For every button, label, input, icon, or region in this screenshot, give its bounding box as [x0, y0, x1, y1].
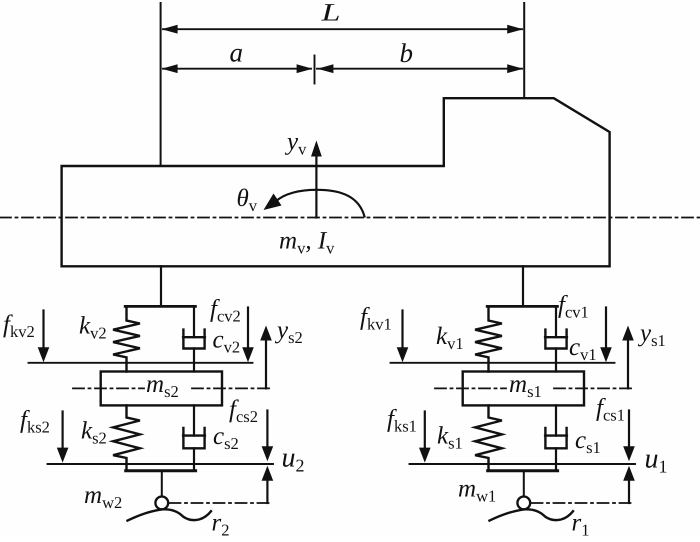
vehicle body m_v with cab outline [62, 98, 610, 266]
arrow f_ks2 [57, 412, 69, 463]
spring k_s1 [475, 405, 502, 470]
label c_s2 [213, 423, 239, 453]
wheel centerline dash-dot 1 [532, 502, 633, 504]
dimension a line [162, 64, 313, 73]
label f_cv1 [558, 292, 589, 322]
wire to wheel m_w1 [523, 471, 525, 497]
top bar of suspension 1 [487, 305, 557, 308]
label f_ks1 [387, 406, 417, 436]
spring k_v2 [113, 308, 140, 372]
wire body to suspension 2 [160, 266, 162, 306]
top bar of suspension 2 [125, 305, 195, 308]
arrow u_2 [262, 466, 274, 503]
dimension L label [320, 0, 340, 27]
arrow y_s1 [622, 326, 634, 389]
label r_2 [212, 510, 230, 540]
label m_w2 [84, 482, 122, 512]
road profile r_2 [128, 509, 212, 520]
label m_s2 [146, 371, 179, 401]
label c_s1 [575, 427, 601, 457]
arrow f_ks1 [419, 412, 431, 463]
svg-text:a: a [230, 38, 244, 68]
wheel m_w1 (contact circle) [517, 497, 530, 510]
road profile r_1 [490, 509, 574, 520]
svg-text:L: L [320, 0, 340, 27]
dimension L line [162, 25, 524, 34]
damper c_v2 [183, 308, 205, 372]
damper c_s2 [183, 405, 205, 470]
mass m_s1 centerline (dash-dot) [435, 387, 634, 389]
arrow f_cv2 [242, 308, 254, 363]
arrow f_cs2 [262, 411, 274, 462]
mass m_s1 box [463, 372, 584, 406]
dimension tick between a and b [314, 56, 316, 84]
wheel m_w2 (contact circle) [155, 497, 168, 510]
label k_s1 [437, 423, 463, 453]
label f_cv2 [210, 296, 241, 326]
label m_v, I_v [279, 228, 335, 258]
bottom bar of suspension 2 [126, 469, 196, 472]
extension line left (front axle) [160, 3, 162, 166]
extension line right (rear axle) [523, 3, 525, 98]
label f_cs1 [596, 395, 625, 425]
vehicle body centerline (dash-dot) [0, 217, 700, 219]
label f_kv2 [3, 311, 35, 341]
mass m_s2 centerline (dash-dot) [73, 387, 272, 389]
label m_w1 [458, 476, 496, 506]
datum line u_1 [410, 463, 636, 465]
label c_v2 [213, 327, 241, 357]
datum line y_s2 [29, 362, 253, 364]
arrow y_v (body bounce dof) [311, 141, 322, 218]
bottom bar of suspension 1 [488, 469, 558, 472]
damper c_s1 [545, 405, 567, 470]
datum line u_2 [48, 463, 274, 465]
arrow f_kv2 [38, 311, 50, 363]
label k_v2 [79, 313, 107, 343]
label m_s1 [509, 371, 542, 401]
label theta_v [237, 185, 258, 215]
label f_cs2 [229, 396, 258, 426]
label u_2 [282, 443, 305, 476]
wheel centerline dash-dot 2 [170, 502, 271, 504]
label k_v1 [436, 323, 464, 353]
label y_v [284, 129, 307, 159]
arrow f_kv1 [397, 311, 409, 363]
spring k_s2 [113, 405, 140, 470]
label y_s2 [274, 317, 303, 347]
label k_s2 [81, 418, 107, 448]
dimension b label [400, 38, 414, 68]
wire to wheel m_w2 [161, 471, 163, 497]
label f_kv1 [360, 304, 392, 334]
arrow f_cs1 [623, 411, 635, 462]
spring k_v1 [475, 308, 502, 372]
damper c_v1 [545, 308, 567, 372]
label u_1 [645, 444, 668, 477]
dimension a label [230, 38, 244, 68]
label c_v1 [569, 334, 597, 364]
svg-text:b: b [400, 38, 414, 68]
arrow theta_v (body pitch dof, curved) [264, 190, 365, 217]
arrow f_cv1 [600, 308, 612, 363]
wire body to suspension 1 [522, 266, 524, 306]
label f_ks2 [20, 407, 50, 437]
dimension b line [317, 64, 523, 73]
label y_s1 [637, 320, 666, 350]
mass m_s2 box [101, 372, 222, 406]
arrow y_s2 [260, 326, 272, 389]
label r_1 [572, 510, 590, 540]
arrow u_1 [623, 466, 635, 503]
datum line y_s1 [391, 362, 615, 364]
